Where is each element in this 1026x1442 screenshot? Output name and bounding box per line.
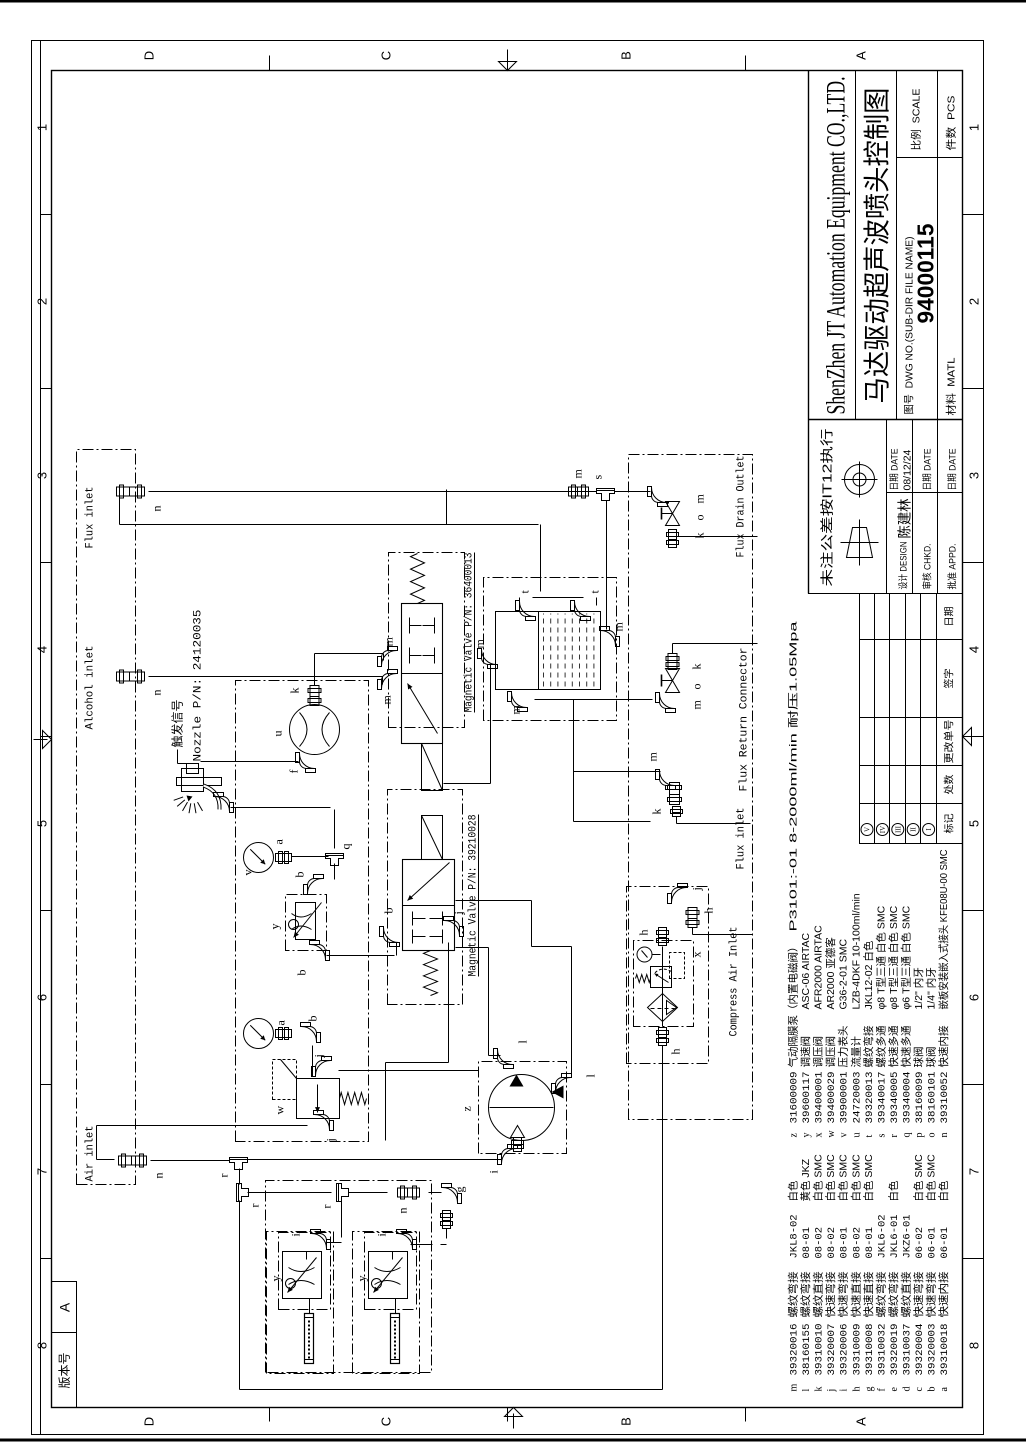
svg-text:白色 SMC: 白色 SMC bbox=[925, 1154, 938, 1202]
svg-text:p: p bbox=[914, 1133, 925, 1138]
svg-text:1: 1 bbox=[35, 124, 50, 131]
svg-text:d: d bbox=[901, 1387, 912, 1392]
wire tank to return connector bbox=[535, 699, 653, 701]
approve row bbox=[947, 449, 959, 590]
svg-text:日期 DATE: 日期 DATE bbox=[923, 449, 934, 491]
center mark bottom bbox=[963, 728, 984, 746]
pump elbow l bottom bbox=[552, 1074, 598, 1094]
pump elbow l top bbox=[494, 1040, 530, 1069]
svg-text:39320007: 39320007 bbox=[826, 1324, 838, 1376]
svg-text:n: n bbox=[150, 506, 164, 512]
svg-text:24720003: 24720003 bbox=[851, 1072, 863, 1124]
valve y elbow b right bbox=[293, 872, 324, 895]
wire tee q to gauge bbox=[292, 856, 329, 858]
svg-text:D: D bbox=[142, 51, 157, 60]
svg-text:38160099: 38160099 bbox=[914, 1072, 926, 1124]
svg-text:39320016: 39320016 bbox=[789, 1324, 801, 1376]
parts list right column bbox=[787, 621, 952, 1137]
svg-text:39320004: 39320004 bbox=[914, 1324, 926, 1376]
svg-text:Flux Drain Outlet: Flux Drain Outlet bbox=[736, 456, 748, 558]
revision header bbox=[943, 607, 956, 834]
svg-text:3: 3 bbox=[35, 472, 50, 479]
svg-text:k: k bbox=[693, 533, 707, 539]
svg-text:q: q bbox=[901, 1133, 912, 1138]
tee r3 bbox=[320, 1184, 349, 1209]
svg-text:1/2" 内牙: 1/2" 内牙 bbox=[912, 967, 925, 1009]
svg-text:2: 2 bbox=[967, 298, 982, 305]
svg-text:4: 4 bbox=[967, 646, 982, 653]
svg-text:触发信号: 触发信号 bbox=[170, 699, 185, 747]
label compress air inlet bbox=[729, 927, 741, 1037]
flux inlet 2 fitting k bbox=[650, 783, 683, 824]
x filter bbox=[648, 994, 678, 1022]
svg-text:A: A bbox=[57, 1302, 73, 1312]
svg-text:j: j bbox=[452, 911, 466, 915]
outlet panel box bbox=[629, 455, 753, 1120]
svg-text:4: 4 bbox=[35, 646, 50, 653]
svg-text:JKL12-02 白色: JKL12-02 白色 bbox=[862, 940, 875, 1009]
valve B elbow m1 bbox=[378, 670, 398, 705]
svg-text:1/4" 内牙: 1/4" 内牙 bbox=[925, 967, 938, 1009]
svg-text:39400001: 39400001 bbox=[814, 1072, 826, 1124]
svg-text:Compress Air Inlet: Compress Air Inlet bbox=[729, 927, 741, 1037]
elbow g feeder bbox=[441, 1184, 467, 1229]
svg-text:压力表头: 压力表头 bbox=[837, 1026, 850, 1068]
svg-text:D: D bbox=[142, 1417, 157, 1426]
wire tee s to tank bbox=[606, 501, 608, 630]
x fitting h right bbox=[637, 928, 669, 946]
svg-text:调压阀: 调压阀 bbox=[824, 1036, 837, 1068]
parts list left column bbox=[787, 1154, 952, 1393]
svg-text:38160101: 38160101 bbox=[927, 1072, 939, 1124]
svg-text:m: m bbox=[789, 1384, 800, 1392]
svg-text:m: m bbox=[380, 695, 394, 705]
ultrasonic nozzle bbox=[177, 764, 222, 810]
label flux drain outlet bbox=[736, 456, 748, 558]
svg-text:h: h bbox=[702, 908, 716, 914]
svg-text:s: s bbox=[876, 1134, 887, 1138]
label magnetic valve 36400013 bbox=[464, 553, 476, 713]
svg-text:黄色 JKZ: 黄色 JKZ bbox=[799, 1158, 812, 1201]
svg-text:日期 DATE: 日期 DATE bbox=[890, 449, 901, 491]
svg-text:ShenZhen JT Automation Equipme: ShenZhen JT Automation Equipment CO.,LTD… bbox=[822, 77, 851, 415]
svg-text:Flux inlet: Flux inlet bbox=[736, 808, 748, 870]
gauge a2 fitting bbox=[276, 1028, 292, 1040]
svg-text:审核 CHKD.: 审核 CHKD. bbox=[922, 544, 934, 590]
svg-text:φ8 T型三通 白色 SMC: φ8 T型三通 白色 SMC bbox=[874, 905, 887, 1009]
svg-text:JKL6-02: JKL6-02 bbox=[876, 1214, 888, 1258]
pump z diaphragm bbox=[460, 1075, 564, 1141]
center mark top bbox=[34, 731, 52, 749]
svg-text:06-02: 06-02 bbox=[914, 1227, 926, 1259]
svg-text:材料 MATL: 材料 MATL bbox=[945, 357, 958, 415]
svg-text:快速弯接: 快速弯接 bbox=[912, 1271, 925, 1318]
asm1 nozzle bar bbox=[305, 1314, 314, 1364]
svg-text:a: a bbox=[939, 1387, 950, 1392]
wire alcohol to valve B bbox=[149, 677, 383, 685]
svg-text:39320006: 39320006 bbox=[839, 1324, 851, 1376]
tee r1 bbox=[217, 1158, 248, 1178]
svg-text:B: B bbox=[619, 1417, 634, 1426]
svg-text:y: y bbox=[269, 1276, 283, 1282]
svg-text:螺纹弯接: 螺纹弯接 bbox=[862, 1025, 875, 1067]
svg-text:螺纹弯接: 螺纹弯接 bbox=[887, 1271, 900, 1318]
tank jumper pipe bbox=[520, 598, 597, 606]
svg-text:08/12/24: 08/12/24 bbox=[902, 449, 914, 490]
svg-text:8: 8 bbox=[967, 1342, 982, 1349]
tank elbow t2 bbox=[571, 590, 602, 621]
svg-text:快速弯接: 快速弯接 bbox=[925, 1271, 938, 1318]
svg-text:调速阀: 调速阀 bbox=[799, 1036, 812, 1068]
svg-text:螺纹弯接: 螺纹弯接 bbox=[787, 1271, 800, 1318]
svg-text:m: m bbox=[693, 494, 707, 504]
label alcohol inlet bbox=[85, 646, 97, 730]
svg-text:白色 SMC: 白色 SMC bbox=[912, 1154, 925, 1202]
nozzle assembly 2 box bbox=[353, 1232, 420, 1374]
svg-text:y: y bbox=[801, 1133, 812, 1138]
tank elbow m top bbox=[473, 639, 498, 669]
svg-text:m: m bbox=[571, 469, 585, 479]
gauge v fitting a bbox=[276, 852, 292, 864]
air loop wire bbox=[240, 1046, 663, 1390]
svg-text:39320003: 39320003 bbox=[927, 1324, 939, 1376]
svg-text:39310010: 39310010 bbox=[814, 1324, 826, 1376]
svg-text:G36-2-01 SMC: G36-2-01 SMC bbox=[838, 938, 850, 1009]
svg-text:Magnetic Valve P/N: 39210028: Magnetic Valve P/N: 39210028 bbox=[468, 815, 480, 977]
svg-text:o: o bbox=[693, 515, 707, 521]
svg-text:流量计: 流量计 bbox=[849, 1036, 862, 1068]
x fitting h entry bbox=[686, 908, 716, 928]
svg-text:39310018: 39310018 bbox=[939, 1324, 951, 1376]
svg-text:w: w bbox=[273, 1106, 287, 1115]
svg-text:j: j bbox=[312, 1054, 326, 1058]
wire gauge to regulator bbox=[312, 1046, 314, 1077]
wire compress air entry bbox=[693, 928, 753, 935]
svg-text:Flux inlet: Flux inlet bbox=[85, 487, 97, 549]
svg-text:v: v bbox=[241, 870, 255, 876]
svg-text:日期 DATE: 日期 DATE bbox=[948, 449, 959, 491]
svg-text:嵌板安装嵌入式接头 KFE08U-00 SMC: 嵌板安装嵌入式接头 KFE08U-00 SMC bbox=[937, 849, 950, 1009]
svg-text:06-01: 06-01 bbox=[927, 1227, 939, 1259]
compress air group box bbox=[627, 887, 709, 1064]
x chain line bbox=[662, 947, 664, 1027]
asm2 nozzle bar bbox=[391, 1314, 400, 1364]
tank elbow m bottom bbox=[600, 622, 626, 647]
pump assembly box bbox=[479, 1062, 567, 1154]
tank liquid hatch bbox=[544, 614, 594, 687]
svg-text:快速弯接: 快速弯接 bbox=[824, 1271, 837, 1318]
svg-text:39400029: 39400029 bbox=[826, 1072, 838, 1124]
svg-text:II: II bbox=[910, 827, 918, 832]
svg-text:39340004: 39340004 bbox=[901, 1072, 913, 1124]
valve A 39210028 bbox=[403, 816, 455, 996]
tank elbow m left bbox=[508, 692, 528, 715]
svg-text:Air inlet: Air inlet bbox=[85, 1126, 97, 1182]
asm2 flow valve y bbox=[355, 1252, 408, 1299]
fitting n air inlet bbox=[119, 1154, 166, 1179]
svg-text:b: b bbox=[382, 908, 396, 914]
x regulator bbox=[636, 952, 704, 988]
svg-text:C: C bbox=[379, 1417, 394, 1426]
svg-text:m: m bbox=[690, 700, 704, 710]
wire air to loop bbox=[662, 1046, 664, 1194]
svg-text:39310008: 39310008 bbox=[864, 1324, 876, 1376]
asm1 valve inlet wire bbox=[306, 1252, 308, 1260]
svg-text:白色: 白色 bbox=[887, 1180, 900, 1202]
svg-text:39310037: 39310037 bbox=[901, 1324, 913, 1376]
svg-text:III: III bbox=[894, 825, 902, 833]
label trigger signal bbox=[170, 699, 187, 763]
center mark left bbox=[505, 1408, 523, 1429]
svg-text:v: v bbox=[839, 1133, 850, 1138]
inlet panel box bbox=[77, 450, 136, 1185]
svg-text:m: m bbox=[612, 622, 626, 632]
wire flux bridge bbox=[446, 490, 448, 525]
svg-text:r: r bbox=[217, 1174, 231, 1178]
regulator w elbow j right bbox=[312, 1054, 332, 1076]
svg-text:o: o bbox=[927, 1133, 938, 1138]
spray control assembly box bbox=[236, 681, 369, 1142]
svg-text:未注公差按IT12执行: 未注公差按IT12执行 bbox=[820, 429, 835, 587]
svg-text:k: k bbox=[814, 1387, 825, 1392]
svg-text:陈建林: 陈建林 bbox=[897, 499, 913, 539]
svg-text:b: b bbox=[306, 1016, 320, 1022]
svg-text:r: r bbox=[248, 1204, 262, 1208]
svg-text:Flux Return Connector: Flux Return Connector bbox=[739, 648, 751, 792]
svg-text:7: 7 bbox=[35, 1168, 50, 1175]
svg-text:39320013: 39320013 bbox=[864, 1072, 876, 1124]
svg-text:g: g bbox=[453, 1187, 467, 1193]
svg-text:n: n bbox=[939, 1133, 950, 1138]
svg-text:08-01: 08-01 bbox=[801, 1227, 813, 1259]
svg-text:j: j bbox=[690, 887, 704, 891]
wire r3 to asm1 bbox=[327, 1199, 342, 1243]
nozzle assembly 1 box bbox=[267, 1232, 334, 1374]
svg-text:a: a bbox=[272, 839, 286, 845]
svg-text:LZB-4DKF 10-100ml/min: LZB-4DKF 10-100ml/min bbox=[850, 893, 862, 1009]
svg-text:t: t bbox=[864, 1135, 875, 1138]
svg-text:06-01: 06-01 bbox=[939, 1227, 951, 1259]
tank bbox=[496, 612, 601, 690]
svg-text:a: a bbox=[274, 1020, 288, 1026]
pump elbow i left bbox=[487, 1138, 524, 1174]
drain ball valve o bbox=[662, 502, 707, 526]
asm1 elbow bbox=[289, 1230, 331, 1250]
wire drain chain bbox=[668, 502, 670, 504]
label flux return connector bbox=[739, 648, 751, 792]
projection symbol circles bbox=[842, 462, 878, 498]
wire air inlet down bbox=[151, 1160, 232, 1162]
svg-text:φ6 T型三通 白色 SMC: φ6 T型三通 白色 SMC bbox=[899, 905, 912, 1009]
svg-text:j: j bbox=[826, 1389, 837, 1393]
svg-text:批准 APPD.: 批准 APPD. bbox=[947, 544, 959, 590]
label flux inlet 2 bbox=[736, 808, 748, 870]
svg-text:q: q bbox=[339, 844, 353, 850]
svg-text:u: u bbox=[271, 731, 285, 737]
svg-text:A: A bbox=[854, 51, 869, 60]
fitting n flux inlet bbox=[117, 485, 164, 512]
svg-text:08-01: 08-01 bbox=[839, 1227, 851, 1259]
svg-text:94000115: 94000115 bbox=[913, 223, 939, 323]
wire regulator to pump bbox=[339, 1070, 479, 1072]
drawing title bbox=[863, 88, 893, 404]
svg-text:JKL8-02: JKL8-02 bbox=[789, 1214, 801, 1258]
center mark right bbox=[499, 50, 517, 71]
svg-text:AFR2000 AIRTAC: AFR2000 AIRTAC bbox=[813, 925, 825, 1010]
svg-text:b: b bbox=[927, 1387, 938, 1392]
svg-text:JKL6-01: JKL6-01 bbox=[889, 1214, 901, 1258]
valve y elbow b left bbox=[295, 941, 330, 976]
svg-text:Nozzle P/N: 24120035: Nozzle P/N: 24120035 bbox=[193, 610, 205, 762]
matl cell bbox=[945, 357, 958, 415]
valve A assembly box bbox=[388, 790, 463, 1005]
valve A elbow b top bbox=[380, 908, 400, 947]
svg-text:e: e bbox=[889, 1387, 900, 1392]
wire return outlet bbox=[673, 644, 758, 654]
svg-text:白色 SMC: 白色 SMC bbox=[837, 1154, 850, 1202]
flux inlet 2 wires bbox=[574, 700, 751, 824]
wire tank to valve B bbox=[444, 665, 491, 784]
nozzle outlet elbow b bbox=[214, 793, 234, 813]
return ball valve o bbox=[662, 669, 704, 693]
asm1 wire valve-bar bbox=[309, 1299, 311, 1314]
wire meter to nozzle bbox=[201, 761, 299, 763]
svg-text:螺纹弯接: 螺纹弯接 bbox=[799, 1271, 812, 1318]
svg-text:标记: 标记 bbox=[944, 814, 956, 834]
nozzle assembly 2 inner box bbox=[365, 1233, 417, 1310]
gauge a2 bbox=[244, 1019, 288, 1049]
svg-text:3: 3 bbox=[967, 472, 982, 479]
nozzle group outer box bbox=[266, 1181, 432, 1373]
scale cell bbox=[910, 89, 923, 151]
svg-text:快速直接: 快速直接 bbox=[862, 1271, 875, 1318]
svg-text:39600117: 39600117 bbox=[801, 1072, 813, 1124]
projection symbol trapezoid bbox=[841, 520, 879, 566]
x fitting h left bbox=[657, 1028, 683, 1055]
zone letters A-D bbox=[142, 51, 869, 1426]
wire r1 to pump bbox=[247, 1159, 502, 1161]
svg-text:C: C bbox=[379, 51, 394, 60]
wire valve A port B to pump bbox=[456, 901, 572, 1076]
tee q bbox=[326, 844, 353, 866]
valve B 36400013 bbox=[402, 554, 443, 791]
svg-text:球阀: 球阀 bbox=[925, 1047, 938, 1068]
svg-text:39340017: 39340017 bbox=[876, 1072, 888, 1124]
fitting n alcohol inlet bbox=[117, 670, 164, 696]
svg-text:快速内接: 快速内接 bbox=[937, 1271, 950, 1318]
svg-text:螺纹弯接: 螺纹弯接 bbox=[874, 1271, 887, 1318]
svg-text:b: b bbox=[295, 970, 309, 976]
svg-text:螺纹直接: 螺纹直接 bbox=[899, 1271, 912, 1318]
svg-text:x: x bbox=[814, 1133, 825, 1138]
svg-text:P3101:-01 8-2000ml/min 耐压1.05M: P3101:-01 8-2000ml/min 耐压1.05Mpa bbox=[787, 621, 800, 931]
svg-text:AR2000 亚德客: AR2000 亚德客 bbox=[824, 937, 837, 1010]
return elbow m bbox=[656, 693, 704, 713]
fitting n on feeder bbox=[396, 1186, 420, 1214]
svg-text:c: c bbox=[914, 1387, 925, 1392]
asm1 flow valve y bbox=[269, 1252, 322, 1299]
svg-text:h: h bbox=[851, 1387, 862, 1392]
design row bbox=[890, 449, 914, 590]
svg-text:白色: 白色 bbox=[787, 1180, 800, 1202]
feeder wire r2 down bbox=[248, 1192, 442, 1194]
svg-text:白色 SMC: 白色 SMC bbox=[812, 1154, 825, 1202]
gauge a2 elbow b bbox=[301, 1016, 321, 1043]
tee r2 bbox=[237, 1184, 262, 1208]
svg-text:IV: IV bbox=[879, 826, 887, 833]
dwg number bbox=[913, 223, 939, 323]
wire valve A exhaust bbox=[386, 943, 449, 1141]
svg-text:5: 5 bbox=[967, 820, 982, 827]
svg-text:Alcohol inlet: Alcohol inlet bbox=[85, 646, 97, 730]
svg-text:39310032: 39310032 bbox=[876, 1324, 888, 1376]
svg-text:m: m bbox=[382, 637, 396, 647]
svg-text:08-01: 08-01 bbox=[864, 1227, 876, 1259]
label nozzle pn bbox=[193, 610, 205, 762]
svg-text:调压阀: 调压阀 bbox=[812, 1036, 825, 1068]
wire r1-r2 bbox=[239, 1169, 241, 1185]
svg-text:x: x bbox=[690, 952, 704, 958]
x elbow j bbox=[668, 884, 704, 904]
svg-text:ASC-06 AIRTAC: ASC-06 AIRTAC bbox=[800, 932, 812, 1009]
svg-text:快速多通: 快速多通 bbox=[899, 1025, 912, 1067]
check row bbox=[922, 449, 934, 590]
svg-text:y: y bbox=[268, 924, 282, 930]
svg-text:u: u bbox=[851, 1133, 862, 1138]
svg-text:Magnetic Valve P/N: 36400013: Magnetic Valve P/N: 36400013 bbox=[464, 553, 476, 713]
svg-text:JKZ6-01: JKZ6-01 bbox=[901, 1214, 913, 1258]
svg-text:螺纹直接: 螺纹直接 bbox=[812, 1271, 825, 1318]
svg-text:7: 7 bbox=[967, 1168, 982, 1175]
valve A elbow j bottom bbox=[444, 911, 466, 936]
wire flux branch bbox=[120, 498, 541, 592]
svg-text:B: B bbox=[619, 51, 634, 60]
revision marks bbox=[861, 824, 935, 836]
svg-text:39320019: 39320019 bbox=[889, 1324, 901, 1376]
flow meter u bbox=[271, 705, 340, 755]
svg-text:z: z bbox=[789, 1133, 800, 1138]
svg-text:w: w bbox=[826, 1130, 837, 1138]
svg-text:日期: 日期 bbox=[944, 607, 956, 627]
svg-text:2: 2 bbox=[35, 298, 50, 305]
title block grid bbox=[809, 71, 963, 594]
svg-text:39340005: 39340005 bbox=[889, 1072, 901, 1124]
page edge bottom bbox=[0, 1439, 1026, 1442]
drain elbow m bbox=[648, 487, 707, 507]
svg-text:处数: 处数 bbox=[943, 775, 956, 795]
svg-text:38160155: 38160155 bbox=[801, 1324, 813, 1376]
svg-text:g: g bbox=[864, 1387, 875, 1392]
svg-text:o: o bbox=[690, 684, 704, 690]
svg-text:螺纹多通: 螺纹多通 bbox=[874, 1025, 887, 1067]
tolerance note bbox=[820, 429, 835, 587]
svg-text:39310009: 39310009 bbox=[851, 1324, 863, 1376]
svg-text:件数 PCS: 件数 PCS bbox=[945, 96, 958, 151]
wire flux main bbox=[149, 491, 651, 493]
svg-text:j: j bbox=[324, 1138, 338, 1142]
svg-text:n: n bbox=[152, 1173, 166, 1179]
svg-text:白色 SMC: 白色 SMC bbox=[849, 1154, 862, 1202]
svg-text:39310052: 39310052 bbox=[939, 1072, 951, 1124]
svg-text:k: k bbox=[288, 688, 302, 694]
asm2 valve inlet wire bbox=[392, 1252, 394, 1260]
svg-text:m: m bbox=[646, 752, 660, 762]
svg-text:l: l bbox=[801, 1389, 812, 1392]
svg-text:气动隔膜泵（内置电磁阀）: 气动隔膜泵（内置电磁阀） bbox=[787, 942, 800, 1068]
wire meter to valve B bbox=[315, 654, 384, 686]
wire valve A port A to pump bbox=[456, 948, 501, 1056]
svg-text:白色 SMC: 白色 SMC bbox=[824, 1154, 837, 1202]
